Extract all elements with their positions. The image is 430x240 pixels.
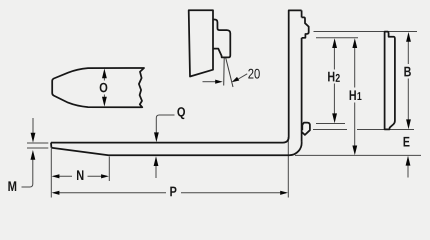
H2 bottom arrow: [332, 113, 337, 123]
label 20: [248, 69, 259, 79]
blade bottom extension line (datum for H1,E): [295, 154, 421, 156]
H1 top arrow: [352, 38, 357, 48]
slanted 20deg line: [226, 58, 233, 87]
H1 bottom arrow: [352, 146, 357, 156]
fork side view main outline: [51, 10, 302, 142]
B dimension shaft: [407, 40, 409, 65]
label O: [100, 83, 108, 93]
label E: [404, 137, 410, 147]
label H1: [350, 90, 362, 100]
N dimension line: [54, 175, 73, 177]
H1 dimension shaft: [354, 45, 356, 88]
extension line at upper hook bottom tip (datum for H1,H2): [316, 37, 358, 39]
blade tip face: [50, 143, 52, 148]
H2 top arrow: [332, 38, 337, 48]
M lower arrow shaft + elbow leader to label: [22, 156, 33, 187]
P left arrow: [52, 191, 60, 195]
extension line at lower hook seat / bar bottom: [313, 129, 347, 131]
20 leader arrow: [232, 77, 240, 82]
Q leader with elbow: [156, 115, 174, 136]
enlarged hook detail: hook profile: [213, 20, 230, 58]
O dimension shafts: [103, 76, 105, 81]
B bottom arrow: [406, 119, 411, 129]
blade bottom taper and bottom edge with heel radius: [51, 142, 301, 156]
heel vertical extension line (P right): [287, 137, 289, 198]
P right arrow: [280, 191, 288, 195]
lower hook: [302, 123, 310, 135]
Q up arrow: [154, 156, 159, 166]
H2 dimension shaft: [333, 45, 335, 70]
vertical reference line of 20deg angle: [223, 58, 226, 86]
label Q: [177, 107, 185, 119]
M down arrow: [31, 133, 36, 143]
N right arrow: [101, 174, 109, 178]
upper hook: [302, 17, 309, 38]
extension line at lower hook top: [316, 123, 345, 125]
O up arrow: [102, 69, 107, 79]
angle dimension horizontal arrow shaft: [203, 81, 216, 83]
B top arrow: [406, 32, 411, 42]
E up arrow: [406, 156, 411, 166]
extension line under upper hook (datum for B): [314, 31, 418, 33]
shank back face: [301, 10, 303, 17]
E lower arrow shaft: [407, 162, 409, 178]
taper-end vertical extension line (N right): [108, 157, 110, 182]
label H2: [328, 72, 340, 82]
M upper arrow shaft: [32, 118, 34, 137]
carriage bar cross-section: [385, 32, 395, 130]
label B: [404, 67, 410, 77]
enlarged hook detail: shank quad: [189, 10, 213, 76]
Q lower arrow shaft: [155, 163, 157, 179]
label P: [170, 187, 176, 197]
bar bottom extension line (right segment): [357, 129, 414, 131]
shank back face lower: [301, 38, 303, 142]
P dimension line: [54, 192, 167, 194]
M top extension line: [27, 142, 48, 144]
M bottom extension line: [27, 147, 48, 149]
label M: [8, 181, 16, 191]
blade plan view outline with break line: [52, 68, 144, 107]
O down arrow: [102, 97, 107, 107]
tip vertical extension line (N,P left): [50, 149, 52, 198]
M up arrow: [31, 150, 36, 160]
label N: [77, 170, 83, 180]
Q down arrow: [154, 132, 159, 142]
N left arrow: [52, 174, 60, 178]
angle dim right-pointing arrow: [215, 80, 223, 84]
20 leader line: [237, 74, 248, 80]
